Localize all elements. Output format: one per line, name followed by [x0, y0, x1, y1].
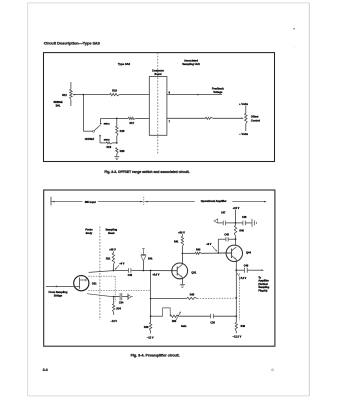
wire feedback voltage [167, 94, 222, 96]
feedback wire R45 [150, 298, 152, 300]
node junction top wire [83, 94, 85, 96]
svg-text:+50 V: +50 V [178, 231, 185, 235]
svg-text:R40: R40 [144, 326, 149, 329]
svg-text:R34: R34 [116, 307, 121, 310]
svg-text:Operational Amplifier: Operational Amplifier [201, 199, 227, 203]
wire upper contact to R17 [101, 117, 117, 119]
resistor R45 [187, 297, 197, 299]
svg-text:R20: R20 [120, 150, 125, 153]
page sheet edge top [28, 2, 310, 4]
svg-text:R41: R41 [174, 241, 179, 244]
output node [235, 269, 237, 271]
svg-text:SW13: SW13 [104, 140, 111, 142]
node R31 bottom [113, 270, 115, 272]
svg-text:Gain: Gain [181, 325, 187, 328]
page sheet edge bottom [28, 395, 310, 397]
revision mark [271, 369, 273, 371]
svg-text:C34: C34 [119, 302, 124, 305]
svg-text:Head: Head [108, 231, 115, 235]
sampling gate circle D31 [74, 276, 89, 291]
capacitor C45 branch [217, 239, 219, 253]
resistor R17 [128, 117, 135, 119]
dashed cable outline top [88, 275, 115, 277]
dashed divider probe/head [99, 227, 101, 321]
wire node to C40 [113, 270, 128, 272]
wire from gate to node [89, 271, 114, 273]
node Q31 collector [182, 253, 184, 255]
feedback lower wire [151, 315, 163, 317]
page sheet edge left [27, 3, 29, 396]
svg-text:Associated: Associated [184, 58, 198, 62]
dashed plug-in boundary [238, 274, 240, 321]
node D41 [143, 270, 145, 272]
wire R16 to connector [120, 94, 150, 96]
speck top right [293, 28, 295, 30]
capacitor C48 branch [236, 222, 243, 224]
svg-text:R18: R18 [120, 130, 125, 133]
svg-text:BAL: BAL [56, 104, 61, 107]
svg-text:Fig. 3-3. OFFSET range switch: Fig. 3-3. OFFSET range switch and associ… [104, 170, 189, 174]
capacitor C40 [128, 268, 130, 273]
ground Q31 emitter [180, 283, 185, 285]
svg-text:C48: C48 [242, 216, 247, 219]
dimension terminator bar left [50, 197, 52, 206]
svg-text:OFFSET: OFFSET [85, 138, 95, 141]
svg-text:+0.6 V: +0.6 V [152, 273, 159, 276]
dashed interconnect line fig1 [157, 53, 159, 154]
svg-text:Circuit Description—Type 3A3: Circuit Description—Type 3A3 [44, 40, 101, 45]
svg-text:+12 V: +12 V [233, 206, 240, 210]
svg-text:1: 1 [272, 370, 273, 372]
page sheet edge right [308, 3, 310, 396]
output rail down [235, 270, 237, 316]
svg-text:Fig. 3-4. Preamplifier circuit: Fig. 3-4. Preamplifier circuit. [131, 354, 180, 358]
node +0.6V [150, 270, 152, 272]
Q44 emitter wire [235, 260, 237, 271]
R12 wiper arrow [73, 94, 75, 96]
resistor R43 [182, 252, 195, 254]
wire top to R16 [83, 94, 109, 96]
svg-text:− Volts: − Volts [239, 132, 248, 136]
wire down from node to switch [82, 95, 84, 132]
+12V rail [235, 210, 237, 223]
open arrow C47 end [214, 219, 218, 223]
svg-text:−12 V: −12 V [147, 336, 154, 339]
svg-text:Q31: Q31 [191, 270, 196, 274]
transistor Q31 [172, 263, 188, 279]
resistor R34 [113, 297, 115, 304]
svg-text:7: 7 [169, 120, 171, 123]
resistor R19 [106, 142, 112, 144]
svg-text:Voltage: Voltage [213, 90, 223, 94]
svg-text:Board: Board [155, 73, 162, 76]
resistor R20 [116, 148, 118, 154]
Q31 emitter wire [181, 277, 183, 284]
svg-text:8: 8 [169, 92, 171, 95]
svg-text:+35 V: +35 V [109, 247, 116, 251]
potentiometer R12 BRIDGE BAL [70, 82, 72, 89]
resistor on offset wire [205, 117, 212, 119]
switch SW13 pivot [93, 130, 95, 132]
label +7.2V [237, 273, 239, 276]
dimension dashed divider tick [143, 197, 145, 206]
svg-text:BRIDGE: BRIDGE [54, 102, 63, 104]
svg-text:+ Volts: + Volts [239, 102, 248, 106]
potentiometer Offset Control [245, 106, 247, 114]
resistor R46 [235, 223, 237, 226]
Q31 collector wire [181, 253, 183, 264]
wire to offset control [167, 117, 206, 119]
svg-text:Sampling Unit: Sampling Unit [182, 62, 200, 66]
capacitor C34 [114, 296, 120, 298]
svg-text:Offset: Offset [251, 114, 259, 118]
switch arm [94, 125, 100, 131]
resistor R49 [235, 316, 237, 322]
svg-text:Bridge: Bridge [54, 293, 63, 297]
faint speck right [294, 46, 295, 47]
svg-text:SW13: SW13 [104, 123, 111, 125]
wire C40 to Q31 base [131, 270, 177, 272]
svg-text:R45: R45 [190, 293, 195, 296]
capacitor C49 [236, 269, 244, 271]
svg-text:3-4: 3-4 [43, 368, 48, 372]
resistor R18 [116, 118, 118, 126]
diode D41 [142, 261, 144, 271]
dimension line operational amplifier [145, 201, 267, 203]
svg-text:R17: R17 [130, 122, 135, 125]
gain adjust arrow [175, 312, 181, 322]
resistor R31 [112, 251, 114, 253]
svg-text:Sampling: Sampling [105, 228, 117, 232]
capacitor C36 [210, 314, 212, 319]
mid rail from +0.6V node [150, 271, 152, 317]
inductor loop L36 [163, 308, 171, 316]
svg-text:+9 V: +9 V [206, 243, 211, 246]
svg-text:R36: R36 [172, 321, 177, 323]
sideways ground C48 [251, 219, 253, 227]
svg-text:R49: R49 [241, 325, 246, 328]
connector board rectangle [149, 77, 167, 136]
figure 3-4 border box [44, 190, 275, 346]
svg-text:Probe: Probe [85, 228, 93, 232]
figure 3-3 border box [44, 53, 275, 162]
node Q44 base [217, 252, 219, 254]
switch lower contact [99, 135, 101, 137]
svg-text:R16: R16 [112, 89, 117, 92]
svg-text:C47: C47 [221, 212, 226, 215]
svg-text:C40: C40 [128, 274, 133, 277]
svg-text:Plug-In): Plug-In) [258, 289, 267, 292]
svg-text:+7.2 V: +7.2 V [239, 277, 246, 280]
svg-text:R31: R31 [106, 257, 111, 260]
svg-text:485 Input: 485 Input [85, 200, 96, 204]
svg-text:C36: C36 [210, 322, 215, 325]
input wire from sampling bridge [46, 285, 74, 287]
transistor Q44 [226, 245, 242, 261]
svg-text:Type 3A3: Type 3A3 [118, 62, 131, 66]
svg-text:Body: Body [86, 231, 93, 235]
svg-text:R19: R19 [107, 146, 112, 149]
resistor R16 [110, 93, 120, 95]
wire to C36 [179, 315, 210, 317]
svg-text:D41: D41 [148, 257, 153, 260]
svg-text:Control: Control [251, 119, 260, 123]
svg-text:C49: C49 [244, 265, 249, 268]
ground fig1 [114, 156, 119, 158]
resistor R41 [181, 234, 183, 236]
resistor R36 [170, 315, 179, 317]
svg-text:Q44: Q44 [246, 251, 251, 255]
dashed cable outline bottom [88, 289, 150, 291]
svg-text:R43: R43 [196, 248, 201, 251]
dashed cable outline right [114, 276, 116, 302]
dimension line 485 input [51, 201, 143, 203]
capacitor C47 branch [226, 222, 235, 224]
resistor R40 [150, 316, 152, 322]
svg-text:R12: R12 [62, 94, 67, 97]
svg-text:−12.2 V: −12.2 V [233, 336, 242, 339]
svg-text:C45: C45 [224, 233, 229, 236]
svg-text:−12 V: −12 V [110, 320, 117, 323]
connector symbol after C34 [127, 294, 129, 300]
svg-text:R46: R46 [239, 230, 244, 233]
wire lower contact to R19 [100, 142, 106, 144]
lower gate wire to C34 node [87, 294, 114, 297]
svg-text:D31: D31 [92, 283, 97, 286]
switch upper contact [100, 118, 102, 122]
svg-text:+4 V: +4 V [119, 262, 124, 265]
